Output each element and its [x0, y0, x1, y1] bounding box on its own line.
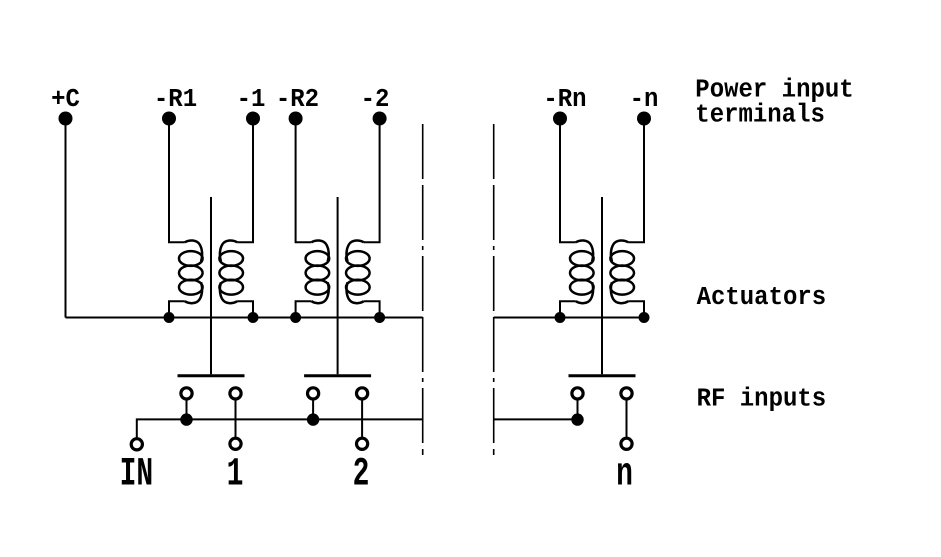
svg-text:n: n [616, 453, 633, 497]
svg-text:2: 2 [353, 453, 370, 497]
svg-text:-R1: -R1 [154, 85, 197, 114]
svg-text:RF inputs: RF inputs [697, 385, 827, 414]
svg-text:-n: -n [630, 85, 659, 114]
svg-text:-2: -2 [361, 85, 390, 114]
svg-text:-R2: -R2 [276, 85, 319, 114]
svg-text:Actuators: Actuators [697, 283, 827, 312]
svg-text:-1: -1 [237, 85, 266, 114]
svg-text:+C: +C [51, 85, 80, 114]
svg-text:-Rn: -Rn [543, 85, 586, 114]
svg-text:IN: IN [120, 453, 154, 497]
svg-text:terminals: terminals [695, 101, 825, 130]
svg-text:1: 1 [227, 453, 244, 497]
